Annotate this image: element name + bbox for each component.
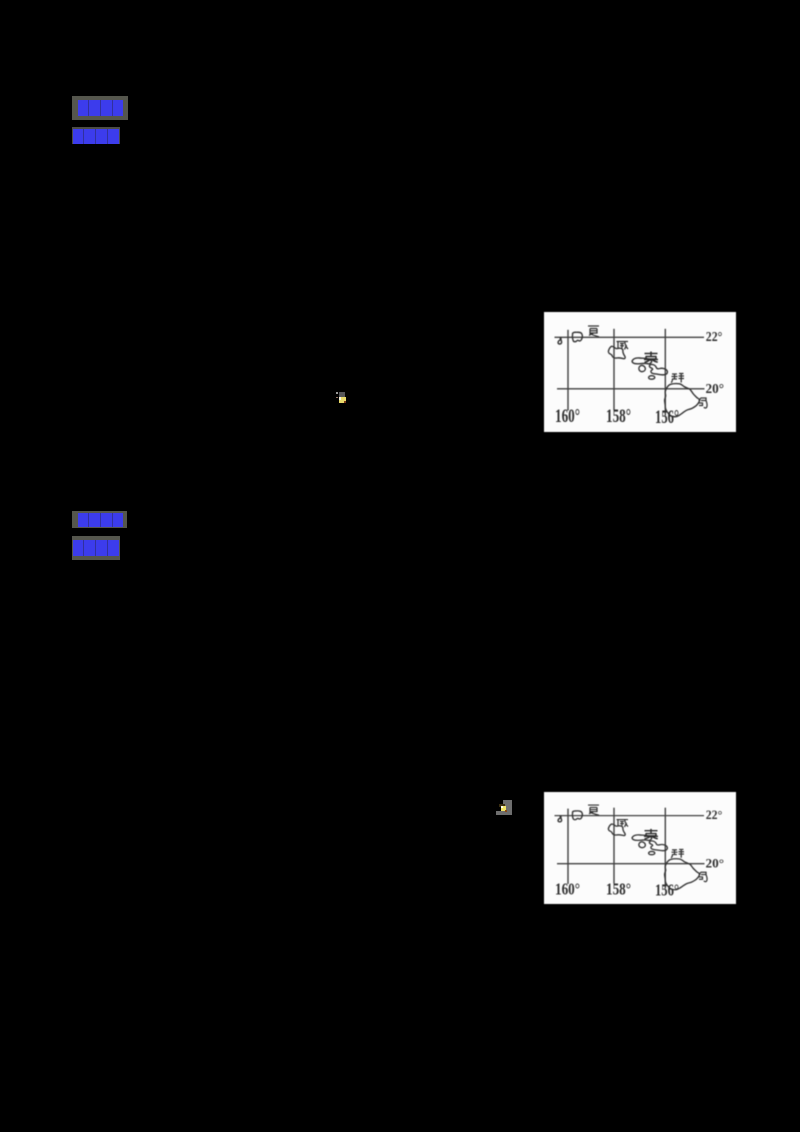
link 答案 (question 1 answer link) (72, 127, 120, 144)
bullet dot b beside icon 1 (336, 397, 338, 399)
bullet dot a beside icon 1 (336, 392, 338, 394)
link 题文 (question 1 label, gray highlighted) (72, 96, 128, 120)
broken image icon 1 (339, 392, 346, 403)
link 题文 second question (72, 511, 127, 528)
link 解析 second question (72, 536, 120, 560)
hidden svg defs: hawaii map artwork (0, 0, 1, 1)
broken image icon 2 (496, 799, 512, 816)
map image 1 (Hawaii islands) (544, 312, 736, 432)
map image 2 (Hawaii islands, slightly squashed) (544, 792, 736, 904)
